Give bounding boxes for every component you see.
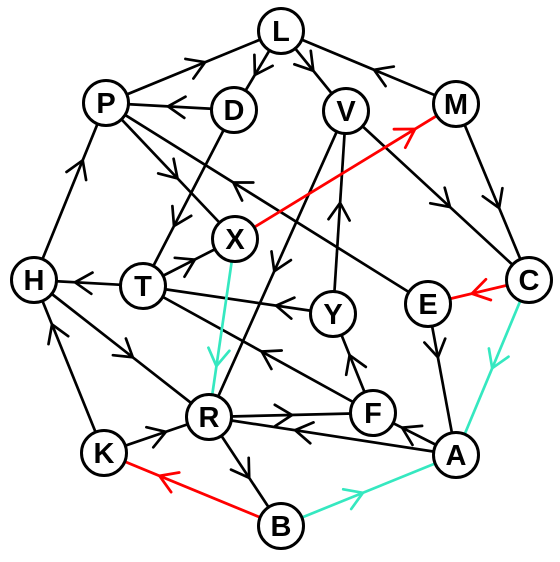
- svg-text:X: X: [225, 224, 245, 256]
- svg-text:C: C: [519, 265, 540, 297]
- svg-text:V: V: [336, 96, 356, 128]
- svg-text:M: M: [444, 89, 468, 121]
- svg-text:E: E: [418, 289, 437, 321]
- svg-text:Y: Y: [323, 299, 342, 331]
- svg-text:D: D: [224, 95, 245, 127]
- svg-text:P: P: [96, 88, 115, 120]
- svg-text:K: K: [94, 438, 115, 470]
- svg-text:T: T: [134, 271, 152, 303]
- svg-text:H: H: [24, 265, 45, 297]
- svg-text:B: B: [271, 511, 292, 543]
- svg-text:R: R: [199, 402, 220, 434]
- svg-text:L: L: [272, 16, 290, 48]
- svg-text:F: F: [364, 398, 382, 430]
- svg-text:A: A: [446, 440, 467, 472]
